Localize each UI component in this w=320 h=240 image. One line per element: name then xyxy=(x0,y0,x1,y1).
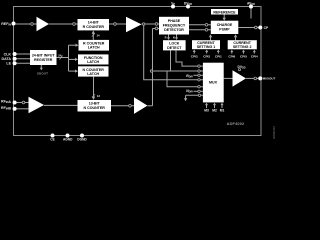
svg-text:FREQUENCY: FREQUENCY xyxy=(163,24,186,28)
svg-text:CPI6: CPI6 xyxy=(228,54,235,58)
svg-text:REFIN: REFIN xyxy=(1,22,11,27)
svg-text:ADF4002: ADF4002 xyxy=(227,121,245,126)
svg-text:CPI2: CPI2 xyxy=(203,54,210,58)
svg-text:M1: M1 xyxy=(220,109,225,113)
svg-text:NDIV: NDIV xyxy=(186,89,193,94)
svg-text:DGND: DGND xyxy=(77,138,87,142)
svg-text:24: 24 xyxy=(58,53,62,57)
svg-text:REFERENCE: REFERENCE xyxy=(213,10,236,14)
svg-text:DETECT: DETECT xyxy=(167,46,182,50)
svg-text:CP: CP xyxy=(264,26,269,30)
svg-text:AGND: AGND xyxy=(63,138,73,142)
svg-text:13-BIT: 13-BIT xyxy=(89,102,101,106)
svg-text:PUMP: PUMP xyxy=(219,28,230,32)
svg-text:DATA: DATA xyxy=(2,57,12,61)
svg-text:N COUNTER: N COUNTER xyxy=(84,106,106,110)
svg-text:SETTING 2: SETTING 2 xyxy=(233,45,252,49)
svg-text:LATCH: LATCH xyxy=(87,72,99,76)
svg-text:DVDD: DVDD xyxy=(238,65,246,70)
svg-text:SDOUT: SDOUT xyxy=(37,72,48,76)
svg-text:RDIV: RDIV xyxy=(186,74,193,79)
svg-text:AVDD: AVDD xyxy=(247,1,255,6)
svg-text:CE: CE xyxy=(50,138,54,142)
svg-text:VP: VP xyxy=(171,1,175,6)
svg-text:DETECTOR: DETECTOR xyxy=(164,28,184,32)
svg-text:MUX: MUX xyxy=(209,81,218,85)
svg-text:CLK: CLK xyxy=(4,52,12,56)
svg-text:DVDD: DVDD xyxy=(184,1,192,6)
svg-text:RFINA: RFINA xyxy=(1,99,11,104)
svg-text:CPI4: CPI4 xyxy=(251,54,258,58)
svg-text:REGISTER: REGISTER xyxy=(34,58,53,62)
svg-text:14: 14 xyxy=(97,34,101,38)
svg-text:02536-001: 02536-001 xyxy=(272,126,276,139)
svg-text:SETTING 1: SETTING 1 xyxy=(197,45,216,49)
svg-text:CPI1: CPI1 xyxy=(215,54,222,58)
svg-text:LATCH: LATCH xyxy=(87,60,99,64)
svg-text:M2: M2 xyxy=(212,109,217,113)
svg-text:LATCH: LATCH xyxy=(88,46,100,50)
svg-text:R COUNTER: R COUNTER xyxy=(83,25,105,29)
svg-text:14-BIT: 14-BIT xyxy=(88,21,100,25)
svg-text:13: 13 xyxy=(97,94,101,98)
svg-text:CPI5: CPI5 xyxy=(240,54,247,58)
svg-text:M3: M3 xyxy=(204,109,209,113)
svg-text:RFINB: RFINB xyxy=(1,106,11,111)
svg-text:MUXOUT: MUXOUT xyxy=(263,77,276,81)
svg-text:PHASE: PHASE xyxy=(168,19,181,23)
svg-text:N: N xyxy=(173,36,175,40)
svg-text:R: R xyxy=(165,36,167,40)
svg-text:CPI3: CPI3 xyxy=(191,54,198,58)
svg-text:LE: LE xyxy=(6,62,11,66)
